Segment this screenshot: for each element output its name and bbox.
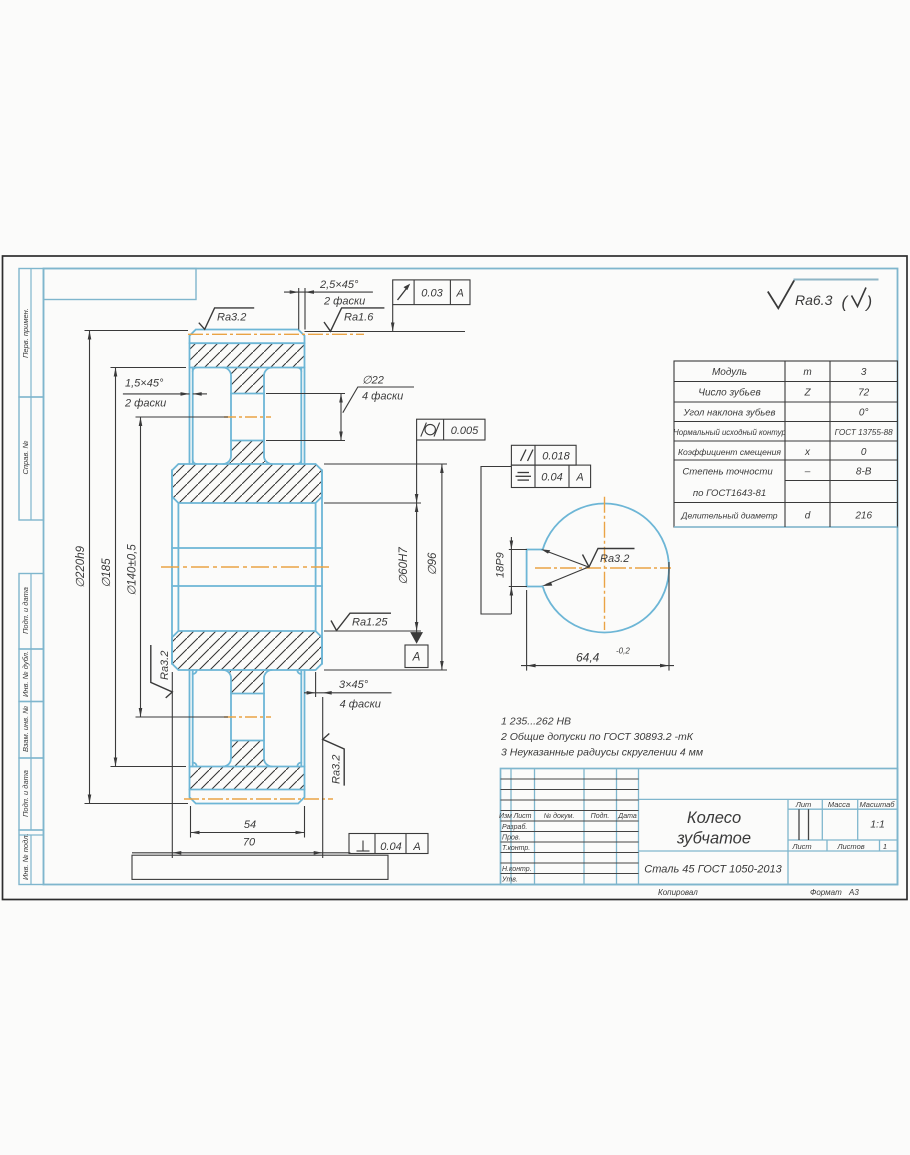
svg-text:18Р9: 18Р9: [495, 552, 507, 578]
roughness Ra1.25: [331, 613, 391, 630]
left column box: Podp. i data (upper): [19, 574, 44, 650]
svg-text:∅185: ∅185: [101, 558, 113, 588]
svg-text:∅60H7: ∅60H7: [398, 547, 410, 585]
pitch line bottom: [184, 798, 333, 800]
dim 18P9: [509, 549, 527, 551]
svg-text:Угол наклона зубьев: Угол наклона зубьев: [683, 408, 776, 419]
NOTES AND ROUGHNESS: [500, 280, 879, 759]
svg-text:Т.контр.: Т.контр.: [502, 845, 530, 852]
left column box: Sprav. No: [19, 397, 44, 520]
dim 54: [191, 806, 305, 838]
svg-text:Ra3.2: Ra3.2: [600, 553, 629, 565]
tip outline top with chamfers: [190, 330, 305, 344]
svg-text:Справ. №: Справ. №: [21, 440, 30, 474]
svg-text:Копировал: Копировал: [658, 888, 698, 897]
roughness Ra3.2 keyway with leaders: [546, 551, 589, 567]
svg-text:2,5×45°: 2,5×45°: [319, 279, 359, 291]
svg-text:Масса: Масса: [828, 800, 850, 809]
title block outline: [501, 769, 898, 885]
dim D22 holes: [266, 375, 414, 441]
svg-text:Подп. и дата: Подп. и дата: [21, 770, 30, 817]
svg-text:∅22: ∅22: [362, 375, 384, 387]
TITLE BLOCK: [499, 769, 897, 885]
hatch: lower web below hole with fillets: [223, 741, 272, 767]
top-left band box (graph 26): [44, 269, 197, 300]
horizontal row lines left part: [501, 779, 809, 874]
svg-text:216: 216: [854, 511, 872, 522]
left column box: Inv. No podl.: [19, 830, 44, 885]
svg-text:2 фаски: 2 фаски: [323, 296, 365, 308]
svg-text:Модуль: Модуль: [712, 367, 747, 378]
general roughness Ra6.3 top right: [768, 280, 879, 309]
svg-text:0: 0: [861, 447, 867, 458]
svg-text:Подп. и дата: Подп. и дата: [21, 587, 30, 634]
perpendicularity frame 0.04 A: [349, 834, 428, 854]
dim D140+-0.5: [127, 417, 229, 717]
PARAMETER TABLE: [673, 361, 897, 527]
svg-text:Лист: Лист: [512, 813, 531, 820]
dim D185: [101, 368, 186, 767]
tip outline bottom with chamfers: [190, 790, 305, 804]
roughness Ra1.6: [324, 308, 384, 331]
hatch: hub lower band: [172, 631, 322, 670]
svg-text:∅140±0,5: ∅140±0,5: [127, 544, 139, 596]
pitch line top: [188, 333, 364, 335]
side view centerlines: [535, 497, 671, 630]
svg-text:Утв.: Утв.: [501, 877, 518, 884]
web faces lower with fillets: [223, 670, 231, 767]
svg-text:Z: Z: [803, 388, 811, 399]
title block texts: [499, 800, 895, 884]
SIDE VIEW (bore circle with keyway): [481, 445, 674, 670]
upper lightening hole edges: [231, 393, 264, 395]
hatch: lower web above hole with fillets: [223, 670, 272, 694]
bore chamfer verticals: [177, 503, 179, 631]
dim 64.4: [526, 590, 528, 671]
rim inner line bottom: [190, 766, 305, 768]
svg-text:Инв. № подл.: Инв. № подл.: [21, 833, 30, 880]
row lines: [674, 381, 898, 383]
rim right face verticals in upper void: [304, 343, 306, 464]
hatch: top web above hole with fillets: [223, 368, 272, 394]
root line top: [190, 342, 305, 344]
svg-text:0.04: 0.04: [380, 841, 401, 853]
svg-text:0.04: 0.04: [541, 472, 562, 484]
dim D220h9: [75, 331, 188, 804]
svg-text:Степень точности: Степень точности: [682, 467, 773, 478]
svg-text:Ra3.2: Ra3.2: [331, 755, 343, 784]
svg-text:Н.контр.: Н.контр.: [502, 866, 532, 873]
hatch: hub upper band: [172, 464, 322, 503]
svg-text:64,4: 64,4: [576, 651, 600, 665]
dim D96: [324, 464, 447, 670]
svg-text:зубчатое: зубчатое: [676, 830, 751, 848]
svg-text:8-В: 8-В: [856, 467, 872, 478]
left column box: Podp. i data (lower): [19, 758, 44, 830]
svg-text:0.03: 0.03: [421, 288, 443, 300]
svg-text:Лист: Лист: [791, 842, 811, 851]
svg-text:0.018: 0.018: [542, 451, 570, 463]
svg-text:Ra1.6: Ra1.6: [344, 312, 374, 324]
lower lightening hole edges: [231, 693, 264, 695]
svg-text:–: –: [804, 467, 811, 478]
svg-text:Сталь 45 ГОСТ 1050-2013: Сталь 45 ГОСТ 1050-2013: [644, 864, 782, 876]
svg-text:54: 54: [244, 819, 256, 831]
svg-text:m: m: [803, 367, 811, 378]
svg-text:1 235...262 НВ: 1 235...262 НВ: [501, 716, 571, 728]
runout tolerance frame 0.03 A: [391, 280, 470, 332]
hub upper band outline: [172, 464, 322, 503]
svg-text:3 Неуказанные радиусы скруглен: 3 Неуказанные радиусы скруглении 4 мм: [501, 747, 703, 759]
left column box: Perv. primen.: [19, 269, 44, 398]
svg-text:-0,2: -0,2: [616, 647, 630, 656]
svg-text:3×45°: 3×45°: [339, 679, 369, 691]
svg-text:А: А: [412, 841, 420, 853]
web faces upper with fillets: [223, 368, 231, 465]
left column box: Vzam. inv. No: [19, 702, 44, 759]
svg-text:1: 1: [883, 842, 887, 851]
hub face verticals (bore span): [171, 470, 173, 664]
root line bottom: [190, 789, 305, 791]
top right extension line: [305, 331, 466, 333]
bottom empty rectangle: [132, 855, 388, 879]
svg-text:x: x: [804, 447, 811, 458]
svg-text:Подп.: Подп.: [591, 812, 610, 820]
svg-text:Листов: Листов: [836, 842, 864, 851]
hatch: bottom rim band: [190, 767, 305, 790]
hub lower band outline: [172, 631, 322, 670]
hatch: top rim band: [190, 343, 305, 367]
rim left face verticals in upper void (face + chamfer): [189, 343, 191, 464]
roughness Ra3.2 top-left: [199, 308, 254, 329]
svg-text:Разраб.: Разраб.: [502, 823, 527, 831]
svg-text:по ГОСТ1643-81: по ГОСТ1643-81: [693, 488, 766, 499]
callout 2.5x45 chamfer: [284, 279, 373, 330]
svg-text:∅96: ∅96: [427, 552, 439, 575]
svg-text:d: d: [805, 511, 811, 522]
roughness Ra3.2 rotated right: [323, 734, 345, 786]
dim 70: [132, 672, 350, 858]
svg-text:4 фаски: 4 фаски: [362, 391, 403, 403]
outer page border: [3, 256, 908, 900]
svg-text:Формат: Формат: [810, 888, 842, 897]
rim faces lower void: [189, 670, 191, 790]
symmetry frame 0.04 A: [511, 465, 590, 487]
FRAME GROUP: [3, 256, 908, 900]
svg-text:Масштаб: Масштаб: [859, 800, 895, 809]
svg-text:А: А: [412, 652, 421, 664]
svg-text:ГОСТ 13755-88: ГОСТ 13755-88: [835, 428, 894, 437]
callout 1.5x45 chamfer: [123, 378, 207, 410]
svg-text:№ докум.: № докум.: [544, 812, 575, 820]
column lines: [784, 361, 786, 527]
svg-text:А: А: [456, 288, 464, 300]
parallelism frame 0.018: [511, 445, 576, 465]
svg-text:Взам. инв. №: Взам. инв. №: [21, 706, 30, 752]
orange centerlines: [161, 334, 364, 799]
svg-text:70: 70: [243, 837, 256, 849]
svg-text:Дата: Дата: [617, 813, 637, 820]
svg-text:): ): [865, 293, 873, 312]
vertical lines left part: [511, 769, 898, 885]
svg-text:А: А: [575, 472, 583, 484]
keyway outline: [527, 550, 543, 587]
svg-text:Изм: Изм: [499, 813, 512, 820]
svg-text:Ra3.2: Ra3.2: [217, 312, 246, 324]
lower hole axis: [224, 716, 271, 718]
rim inner line top (D185): [190, 367, 305, 369]
svg-text:Лит: Лит: [795, 800, 812, 809]
svg-text:Число зубьев: Число зубьев: [698, 387, 760, 399]
svg-text:0.005: 0.005: [451, 425, 479, 437]
cylindricity frame 0.005: [417, 419, 485, 440]
left column box: Inv. No dubl.: [19, 649, 44, 702]
svg-text:Перв. примен.: Перв. примен.: [21, 308, 30, 358]
svg-text:0°: 0°: [859, 408, 869, 419]
bore circle D60: [540, 504, 669, 633]
svg-text:Ra1.25: Ra1.25: [352, 617, 388, 629]
void corner fillets upper: [193, 368, 302, 465]
table texts: [673, 367, 893, 522]
svg-text:Инв. № дубл.: Инв. № дубл.: [21, 651, 30, 697]
svg-text:Ra6.3: Ra6.3: [795, 292, 833, 308]
svg-text:Пров.: Пров.: [502, 835, 521, 842]
svg-text:Колесо: Колесо: [687, 809, 741, 827]
svg-text:Нормальный исходный контур: Нормальный исходный контур: [673, 428, 786, 437]
svg-text:Делительный диаметр: Делительный диаметр: [680, 511, 777, 521]
svg-text:3: 3: [861, 367, 867, 378]
svg-text:1,5×45°: 1,5×45°: [125, 378, 164, 390]
void corner fillets lower: [193, 670, 302, 767]
lit cell inner verticals: [798, 809, 800, 840]
GEAR SECTION VIEW: [161, 330, 364, 804]
hatch: top web below hole with fillets: [223, 441, 272, 465]
svg-text:2 Общие допуски по ГОСТ 30893.: 2 Общие допуски по ГОСТ 30893.2 -тК: [500, 731, 694, 743]
svg-text:А3: А3: [848, 888, 859, 897]
svg-text:4 фаски: 4 фаски: [340, 699, 381, 711]
roughness Ra3.2 rotated left: [151, 645, 173, 698]
svg-text:Ra3.2: Ra3.2: [159, 651, 171, 680]
keyway side wall lines seen in bore: [172, 547, 322, 549]
leader to tolerance frames: [481, 467, 511, 615]
DIMENSIONS MAIN VIEW: [75, 279, 485, 879]
callout 3x45 chamfer: [304, 672, 392, 711]
svg-text:∅220h9: ∅220h9: [75, 545, 87, 588]
svg-text:Коэффициент смещения: Коэффициент смещения: [678, 447, 781, 457]
svg-text:2 фаски: 2 фаски: [124, 398, 166, 410]
dim D60H7 with datum A leader: [324, 440, 428, 668]
svg-text:1:1: 1:1: [870, 819, 885, 831]
inner drawing frame: [44, 269, 898, 885]
table outline: [674, 361, 898, 527]
upper hole axis: [224, 416, 271, 418]
svg-text:72: 72: [858, 388, 870, 399]
main gear axis: [161, 566, 333, 568]
